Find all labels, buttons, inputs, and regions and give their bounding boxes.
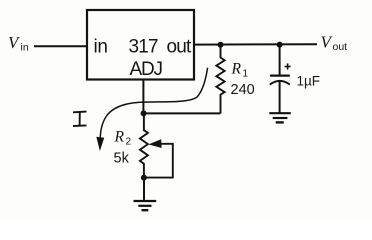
svg-text:ADJ: ADJ xyxy=(130,59,163,80)
svg-text:out: out xyxy=(167,37,193,58)
svg-text:240: 240 xyxy=(231,82,255,98)
capacitor C1 bottom wire xyxy=(279,82,281,113)
svg-text:in: in xyxy=(94,37,108,58)
wire wiper to bottom terminal xyxy=(144,144,173,178)
potentiometer R2 zigzag xyxy=(140,113,148,177)
resistor R1 xyxy=(216,45,224,114)
wire out pin to Vout xyxy=(194,43,317,45)
ground under C1 xyxy=(269,113,291,122)
label I xyxy=(73,112,87,126)
svg-text:5k: 5k xyxy=(114,151,130,167)
svg-text:out: out xyxy=(333,41,348,53)
regulator U1 317 box xyxy=(87,10,194,80)
svg-text:1µF: 1µF xyxy=(297,74,321,89)
wire R2 bottom to ground xyxy=(143,178,145,201)
junction dot out node / R1 xyxy=(218,42,224,48)
capacitor C1 top wire xyxy=(279,45,281,75)
svg-text:R: R xyxy=(231,61,242,78)
wire ADJ pin down xyxy=(142,80,144,114)
junction dot ADJ node xyxy=(141,110,147,116)
wire ADJ node to R1 bottom xyxy=(144,112,221,114)
svg-text:2: 2 xyxy=(126,137,132,148)
junction dot cap node xyxy=(277,42,283,48)
wire Vin to regulator xyxy=(34,45,87,47)
svg-text:1: 1 xyxy=(243,69,249,80)
current arrow I head xyxy=(96,137,104,151)
svg-text:R: R xyxy=(114,129,125,146)
capacitor C1 top plate xyxy=(270,74,290,76)
plus polarity mark xyxy=(285,63,291,69)
svg-text:in: in xyxy=(21,42,29,54)
ground under R2 xyxy=(134,201,157,210)
potentiometer R2 wiper arrow xyxy=(148,139,161,148)
junction dot R2 bottom xyxy=(141,175,147,181)
svg-text:317: 317 xyxy=(129,37,159,58)
capacitor C1 bottom curved plate xyxy=(270,81,290,85)
current arrow I (freehand curve) xyxy=(100,68,207,140)
